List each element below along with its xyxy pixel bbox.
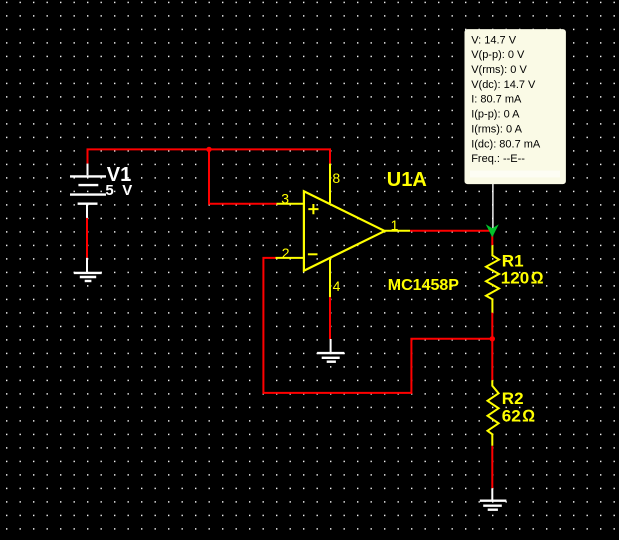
svg-text:5 V: 5 V [105,182,134,199]
svg-text:I(p-p): 0 A: I(p-p): 0 A [471,109,520,121]
svg-text:I(rms): 0 A: I(rms): 0 A [471,124,522,136]
svg-text:120Ω: 120Ω [501,269,544,288]
svg-text:V(dc): 14.7 V: V(dc): 14.7 V [471,79,536,91]
svg-text:1: 1 [391,217,399,233]
svg-text:62Ω: 62Ω [502,406,535,425]
svg-text:R2: R2 [502,389,524,408]
svg-text:V(rms): 0 V: V(rms): 0 V [471,64,527,76]
svg-text:MC1458P: MC1458P [388,277,459,294]
svg-text:4: 4 [333,278,341,294]
svg-text:V: 14.7 V: V: 14.7 V [471,34,517,46]
svg-text:I(dc): 80.7 mA: I(dc): 80.7 mA [471,138,541,150]
svg-text:I: 80.7 mA: I: 80.7 mA [471,94,522,106]
svg-text:8: 8 [332,170,340,186]
svg-text:3: 3 [281,191,289,207]
svg-text:U1A: U1A [387,169,427,191]
svg-text:Freq.: --E--: Freq.: --E-- [471,153,525,165]
svg-text:V(p-p): 0 V: V(p-p): 0 V [471,49,525,61]
svg-text:2: 2 [282,245,290,261]
